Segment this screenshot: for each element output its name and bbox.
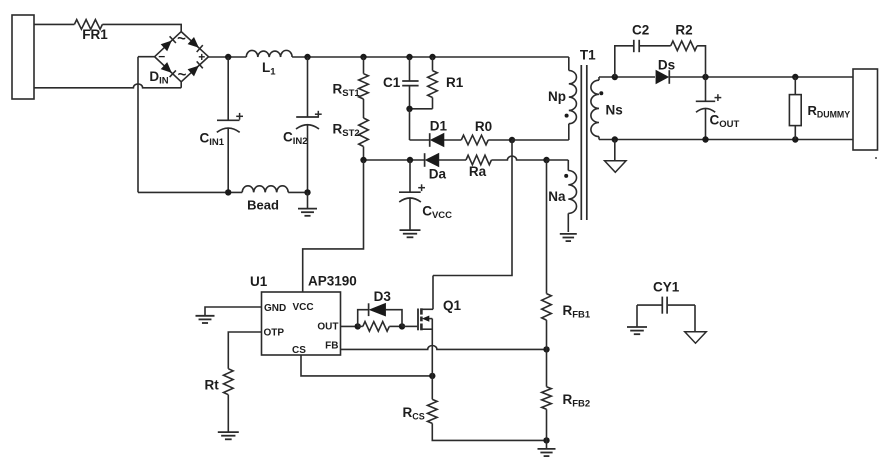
node junction bottom rail CIN2 (304, 189, 310, 195)
resistor RFB2 (546, 349, 548, 386)
wire (292, 56, 569, 58)
wire (669, 76, 853, 78)
svg-text:U1: U1 (250, 274, 268, 289)
node junction R0 row (509, 137, 515, 143)
wire (301, 355, 432, 376)
wire (599, 139, 853, 141)
node junction RDUMMY bottom (792, 136, 798, 142)
wire (491, 156, 546, 160)
polarity dot Ns (599, 91, 603, 95)
node junction snubber R2 (702, 74, 708, 80)
svg-text:VCC: VCC (293, 302, 314, 313)
resistor gate (363, 322, 390, 332)
svg-text:OUT: OUT (317, 322, 338, 333)
wire (363, 99, 365, 118)
wire (364, 159, 425, 161)
capacitor COUT (705, 77, 707, 101)
resistor RDUMMY (794, 77, 796, 95)
ground (307, 192, 309, 208)
node junction bottom rail CIN1 (225, 189, 231, 195)
wire (137, 57, 139, 193)
svg-text:FB: FB (325, 341, 338, 352)
svg-text:Da: Da (429, 166, 447, 181)
wire (439, 159, 466, 161)
node junction CS source (429, 373, 435, 379)
svg-text:~: ~ (178, 67, 187, 84)
wire (303, 160, 364, 292)
node junction top rail RST1 (360, 54, 366, 60)
node junction secondary bottom ground (612, 136, 618, 142)
resistor RST2 (359, 118, 369, 147)
resistor Rt (224, 369, 234, 395)
ground (546, 440, 548, 449)
svg-text:T1: T1 (580, 48, 596, 63)
bridge diode top-left (161, 41, 172, 52)
AC input connector (12, 15, 34, 99)
node junction gate network right (399, 323, 405, 329)
wire (363, 147, 365, 161)
svg-text:Q1: Q1 (443, 298, 462, 313)
node junction ground rail (543, 437, 549, 443)
wire (432, 423, 546, 440)
svg-text:AP3190: AP3190 (308, 274, 357, 289)
wire (34, 84, 181, 88)
ground (196, 315, 215, 317)
polarity dot Na (564, 174, 568, 178)
wire (205, 307, 262, 316)
svg-text:D3: D3 (374, 289, 392, 304)
wire (34, 23, 74, 25)
svg-text:FR1: FR1 (82, 27, 108, 42)
capacitor C2 (633, 40, 635, 52)
wire (288, 191, 307, 193)
bead inductor Bead (242, 186, 288, 193)
diode Da (425, 153, 439, 167)
transformer T1 core (580, 65, 582, 220)
svg-text:Rt: Rt (205, 378, 220, 393)
wire (547, 159, 569, 161)
wire (410, 108, 433, 110)
node junction FB tap (543, 346, 549, 352)
transformer auxiliary winding Na (567, 160, 569, 171)
resistor R0 (461, 135, 488, 145)
capacitor CIN1 (227, 57, 229, 120)
svg-text:Ra: Ra (469, 164, 487, 179)
svg-text:+: + (198, 50, 205, 64)
wire (341, 325, 358, 327)
ground (560, 233, 577, 235)
bridge diode bottom-right (188, 66, 199, 77)
svg-text:Np: Np (548, 89, 566, 104)
fuse resistor FR1 (74, 20, 102, 30)
svg-text:−: − (158, 50, 165, 64)
wire (402, 325, 417, 327)
resistor RST1 (363, 57, 365, 74)
svg-text:R0: R0 (475, 119, 492, 134)
transformer primary winding Np (568, 57, 570, 71)
resistor RCS (431, 376, 433, 400)
capacitor C1 (409, 57, 411, 81)
diode D3 (358, 310, 369, 327)
node junction Ra row RFB1 (543, 157, 549, 163)
svg-text:Bead: Bead (247, 198, 279, 213)
wire (639, 45, 670, 47)
resistor RFB1 (546, 160, 548, 294)
bridge diode top-right (188, 37, 199, 48)
wire (488, 139, 512, 141)
svg-text:OTP: OTP (264, 328, 285, 339)
node junction Da row CVCC (407, 157, 413, 163)
wire (102, 24, 181, 31)
ground (627, 326, 647, 328)
diode bridge DIN (155, 32, 209, 82)
node junction COUT bottom (702, 136, 708, 142)
polarity dot Np (565, 114, 569, 118)
node junction C1 R1 (406, 106, 412, 112)
capacitor CVCC (409, 160, 411, 192)
node junction RDUMMY top (792, 74, 798, 80)
transformer secondary winding Ns (598, 77, 600, 80)
wire (599, 76, 655, 78)
diode Ds (656, 70, 669, 84)
node junction secondary top C2 (612, 74, 618, 80)
ground (400, 229, 421, 231)
wire (138, 191, 242, 193)
wire (636, 305, 638, 327)
diode D1 (431, 133, 445, 147)
wire (341, 345, 547, 349)
wire (228, 332, 261, 369)
resistor R2 (671, 41, 697, 51)
node junction Da row RST (360, 157, 366, 163)
node junction top rail R1 (429, 54, 435, 60)
node junction gate network left (355, 323, 361, 329)
svg-text:GND: GND (264, 303, 286, 314)
wire (409, 109, 411, 140)
ground (218, 431, 239, 433)
node junction top rail CIN1 (225, 54, 231, 60)
MOSFET Q1 (417, 309, 419, 331)
wire (433, 140, 512, 276)
wire (697, 46, 705, 77)
wire (444, 139, 461, 141)
svg-text:CY1: CY1 (653, 280, 680, 295)
snubber branch wire (615, 46, 634, 77)
node junction top rail CIN2 (304, 54, 310, 60)
svg-text:C2: C2 (632, 23, 649, 38)
wire (227, 395, 229, 432)
svg-text:Ns: Ns (606, 103, 623, 118)
wire (694, 305, 696, 332)
svg-text:CS: CS (292, 345, 306, 356)
wire (512, 139, 569, 141)
inductor L1 (246, 50, 292, 57)
svg-text:Na: Na (548, 189, 566, 204)
IC U1 AP3190 box (262, 292, 341, 355)
bridge diode bottom-left (161, 62, 172, 73)
svg-text:~: ~ (177, 31, 186, 48)
svg-text:C1: C1 (383, 75, 401, 90)
wire (209, 56, 247, 58)
output connector (853, 69, 878, 150)
svg-text:Ds: Ds (658, 57, 675, 72)
capacitor CY1 (637, 304, 662, 306)
svg-text:D1: D1 (430, 119, 448, 134)
node junction top rail C1 (406, 54, 412, 60)
svg-text:R1: R1 (446, 75, 464, 90)
resistor Ra (466, 155, 491, 165)
svg-text:R2: R2 (675, 23, 692, 38)
chassis ground CY1 (685, 332, 707, 344)
capacitor CIN2 (307, 57, 309, 117)
dot artifact (875, 157, 877, 159)
chassis ground secondary (614, 140, 616, 161)
wire (138, 56, 155, 58)
resistor R1 (432, 57, 434, 71)
